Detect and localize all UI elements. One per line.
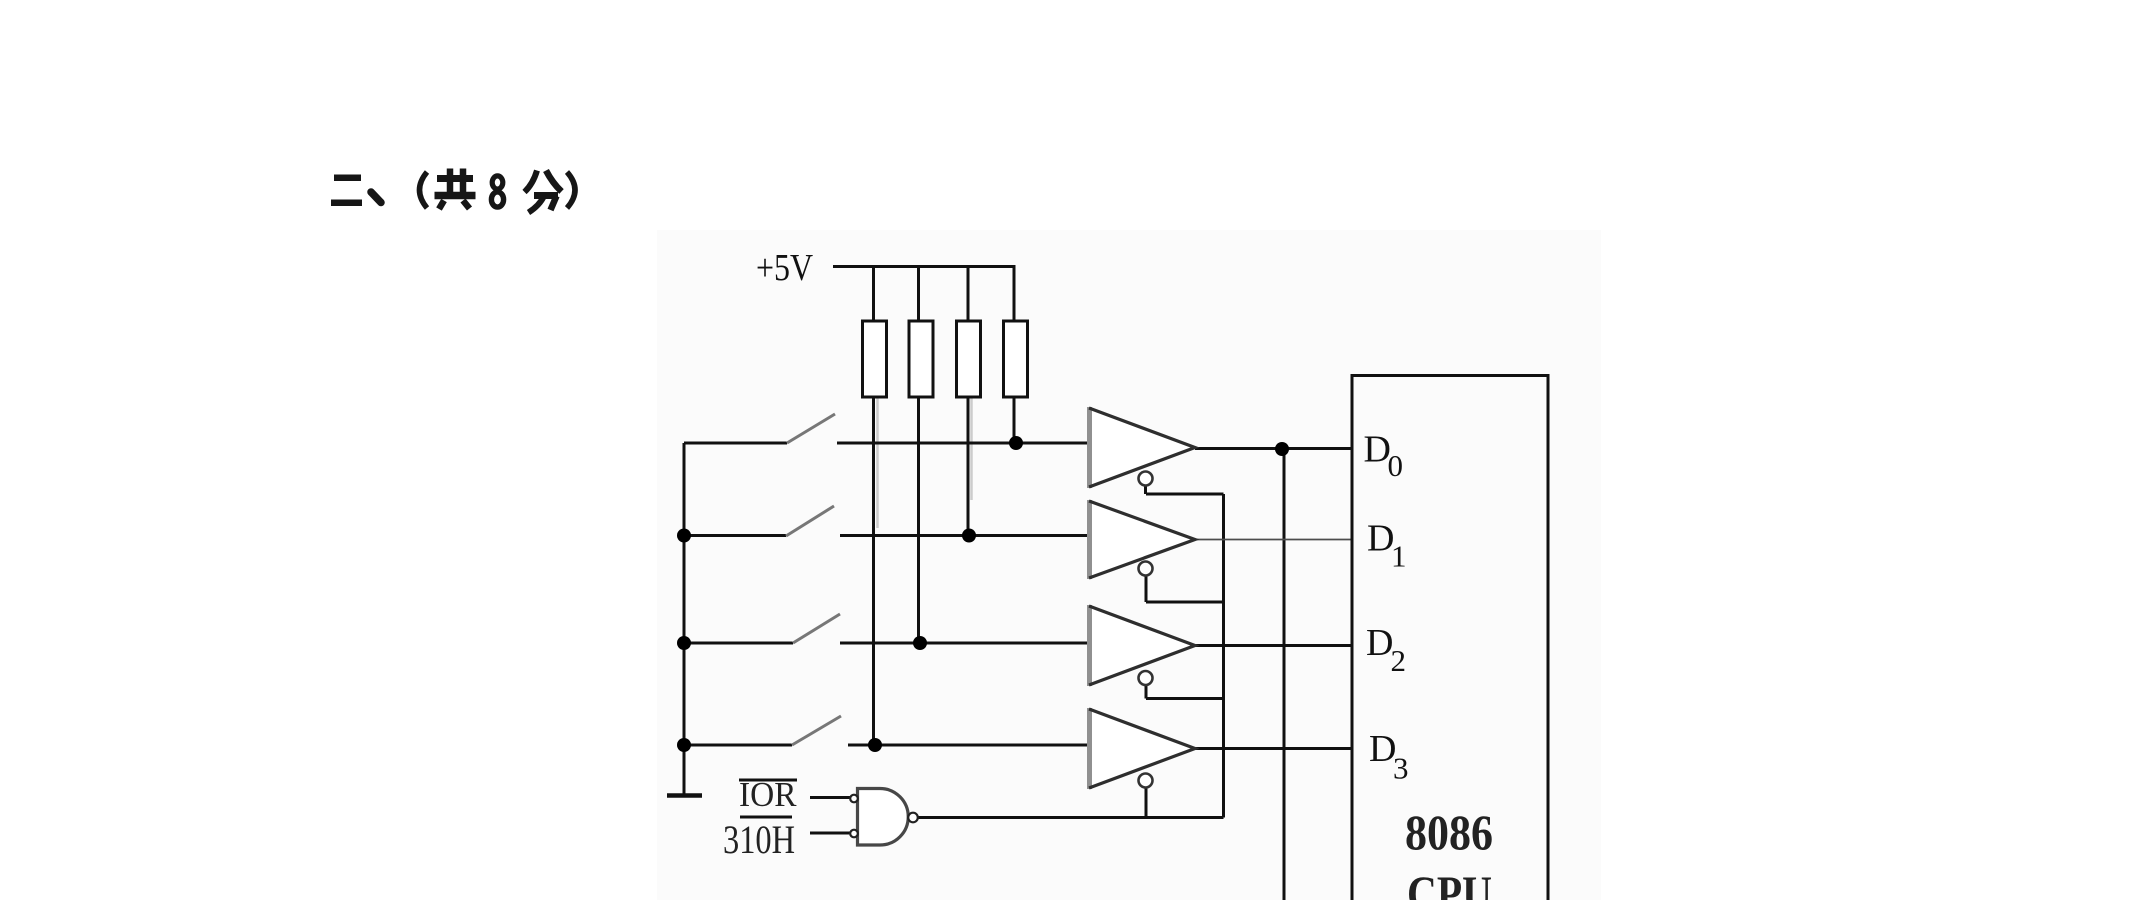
svg-text:1: 1: [1391, 539, 1407, 574]
svg-text:310H: 310H: [723, 817, 795, 862]
svg-text:0: 0: [1388, 448, 1404, 483]
svg-text:CPU: CPU: [1407, 865, 1492, 900]
svg-text:3: 3: [1393, 751, 1409, 786]
svg-text:IOR: IOR: [739, 775, 797, 814]
svg-text:2: 2: [1391, 643, 1407, 678]
svg-text:+5V: +5V: [756, 247, 813, 289]
svg-text:8086: 8086: [1405, 804, 1493, 860]
svg-text:D: D: [1366, 622, 1393, 664]
